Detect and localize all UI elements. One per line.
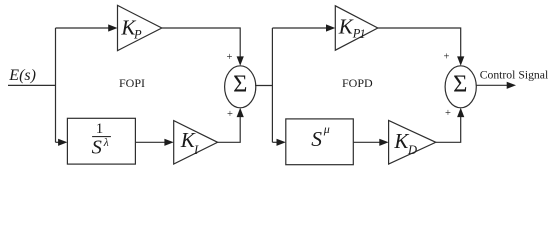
svg-text:Control Signal: Control Signal	[480, 69, 549, 82]
summing junction 2	[445, 66, 476, 108]
svg-text:K: K	[393, 129, 409, 153]
wire branch vertical 2	[271, 28, 273, 142]
wire KP output to sum1	[162, 28, 240, 58]
arrowhead into sum2 top	[457, 56, 464, 65]
arrowhead into KD	[379, 139, 388, 146]
arrowhead into sum2 bottom	[457, 108, 464, 117]
svg-text:Σ: Σ	[233, 70, 247, 97]
amplifier triangle KD	[389, 121, 436, 165]
svg-text:I: I	[193, 143, 199, 157]
wire top rail to KP1	[272, 27, 327, 29]
arrowhead into sum1 top	[237, 56, 244, 65]
svg-text:P: P	[133, 27, 142, 41]
svg-text:D: D	[407, 143, 417, 157]
wire branch to box 2	[272, 141, 277, 143]
wire top rail to KP	[56, 27, 110, 29]
arrowhead control signal	[507, 82, 516, 89]
wire KD output to sum2	[436, 116, 461, 143]
wire KI output to sum1	[218, 116, 241, 143]
summing junction 1	[225, 66, 256, 108]
svg-text:λ: λ	[103, 137, 109, 149]
svg-text:FOPI: FOPI	[119, 76, 145, 90]
svg-text:S: S	[92, 136, 102, 158]
svg-text:1: 1	[359, 27, 365, 41]
arrowhead into KP	[108, 24, 117, 31]
amplifier triangle KP	[118, 5, 162, 50]
block S^mu	[286, 119, 354, 165]
wire branch vertical 1	[55, 28, 57, 142]
arrowhead into KP1	[326, 24, 335, 31]
svg-text:+: +	[226, 52, 232, 63]
svg-text:FOPD: FOPD	[342, 76, 373, 90]
svg-text:+: +	[445, 108, 451, 119]
svg-text:S: S	[311, 127, 322, 151]
wire box1 to KI	[135, 141, 165, 143]
wire KP1 output to sum2	[378, 28, 461, 58]
svg-text:Σ: Σ	[453, 70, 467, 97]
svg-text:μ: μ	[323, 122, 330, 136]
wire branch to box 1	[56, 141, 60, 143]
wire sum1 output to branch 2	[255, 85, 272, 87]
svg-text:1: 1	[96, 121, 104, 137]
amplifier triangle KP1	[335, 6, 378, 50]
block 1/S^lambda	[67, 118, 135, 164]
wire E(s) input	[8, 84, 56, 86]
wire box2 to KD	[353, 141, 380, 143]
svg-text:+: +	[444, 51, 450, 62]
arrowhead into box1	[58, 139, 67, 146]
svg-text:+: +	[227, 109, 233, 120]
wire control signal output	[476, 84, 507, 86]
svg-text:E(s): E(s)	[8, 67, 36, 84]
arrowhead into KI	[164, 139, 173, 146]
arrowhead into sum1 bottom	[237, 108, 244, 117]
amplifier triangle KI	[174, 121, 218, 164]
arrowhead into box2	[277, 139, 286, 146]
svg-text:K: K	[338, 15, 354, 39]
